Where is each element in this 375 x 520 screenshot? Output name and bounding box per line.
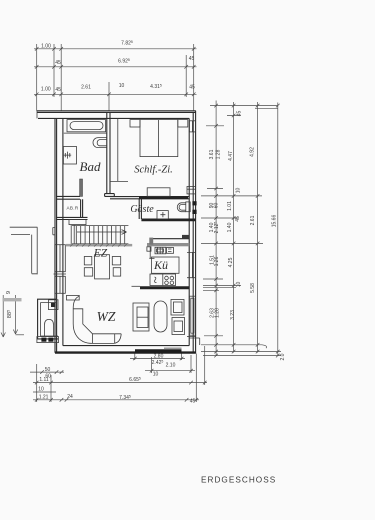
right top connector line xyxy=(210,106,278,109)
svg-text:4.47: 4.47 xyxy=(228,151,234,161)
window right wall schlafzimmer xyxy=(189,121,195,132)
left dim bottom horizontal xyxy=(16,334,25,336)
svg-text:Gäste: Gäste xyxy=(130,204,154,215)
bathtub platform line xyxy=(64,132,107,134)
chain D vertical xyxy=(277,103,279,357)
dim 6.65 ticks xyxy=(35,381,207,385)
chain B vertical xyxy=(233,102,235,353)
SECTION: left dimensions xyxy=(1,291,24,337)
dim 2.10 line xyxy=(145,370,195,372)
svg-text:45: 45 xyxy=(236,111,242,117)
svg-text:1.00: 1.00 xyxy=(41,43,51,49)
kitchen small box below band xyxy=(147,247,151,251)
svg-text:60: 60 xyxy=(213,203,219,209)
svg-text:1.01: 1.01 xyxy=(227,201,233,211)
entry step gray band far left xyxy=(3,298,22,301)
left dim verticals xyxy=(3,295,15,337)
svg-text:Schlf.-Zi.: Schlf.-Zi. xyxy=(134,165,173,176)
svg-text:WZ: WZ xyxy=(97,309,116,324)
washbasin square with cross xyxy=(63,147,76,165)
terrace door threshold thick xyxy=(135,349,182,352)
fireplace bay outer xyxy=(38,299,58,339)
kitchen counter band left cap xyxy=(149,238,153,245)
bathtub inner stadium xyxy=(70,122,103,130)
svg-text:2.10: 2.10 xyxy=(166,363,176,369)
sofa arm box top xyxy=(67,295,80,300)
bathtub outer xyxy=(67,120,106,132)
svg-text:1.26: 1.26 xyxy=(214,256,220,266)
dining table EZ xyxy=(95,255,110,279)
SECTION: walls xyxy=(3,111,200,353)
extension verticals top xyxy=(37,44,194,111)
wall left inner xyxy=(62,118,64,345)
wall right inner xyxy=(188,118,190,338)
wall bottom outer thick xyxy=(55,351,196,353)
svg-text:50: 50 xyxy=(45,367,51,373)
dim row3 line xyxy=(34,93,197,95)
wall top left end cap xyxy=(36,111,38,119)
svg-text:3.23: 3.23 xyxy=(230,310,236,320)
svg-text:45: 45 xyxy=(189,56,195,62)
right rotated labels xyxy=(209,111,286,361)
right tick rows horizontals xyxy=(201,116,281,356)
svg-text:15.66: 15.66 xyxy=(272,215,278,228)
SECTION: rooms xyxy=(63,120,190,344)
svg-text:24: 24 xyxy=(67,394,73,400)
dim 7.34 ticks xyxy=(35,398,198,402)
partition Bad/Schlafzimmer xyxy=(107,112,110,193)
svg-text:10: 10 xyxy=(236,282,242,288)
kitchen lower counter xyxy=(150,274,176,286)
chair EZ top-right xyxy=(112,257,120,265)
SECTION: bottom dimensions xyxy=(30,346,207,405)
svg-text:1.21: 1.21 xyxy=(39,395,49,401)
toilet Gaeste tank xyxy=(186,202,190,212)
svg-text:45: 45 xyxy=(235,216,241,222)
svg-text:4.25: 4.25 xyxy=(228,257,234,267)
window left wall lower xyxy=(55,276,66,293)
svg-text:45: 45 xyxy=(55,60,61,66)
svg-text:3.61: 3.61 xyxy=(209,149,215,159)
stairs outline xyxy=(72,226,128,244)
SECTION: top dimensions xyxy=(34,40,197,111)
wall Bad bottom xyxy=(56,196,80,199)
fireplace bay inner xyxy=(41,303,58,336)
left wall step lines top xyxy=(53,228,55,235)
wall Gaeste bottom dark xyxy=(141,218,195,221)
svg-text:Bad: Bad xyxy=(80,159,101,174)
kitchen table xyxy=(152,257,180,273)
stairs direction arrow xyxy=(77,230,127,235)
dim row2 line xyxy=(34,66,197,68)
svg-text:ERDGESCHOSS: ERDGESCHOSS xyxy=(201,476,276,485)
wall Schlafzimmer bottom xyxy=(110,197,189,199)
kitchen appliance box small xyxy=(167,248,174,254)
kitchen burners xyxy=(165,276,174,284)
oval table WZ xyxy=(154,301,167,332)
svg-text:AB.R: AB.R xyxy=(67,206,79,211)
kitchen counter side panel xyxy=(149,247,154,259)
wall top inner line xyxy=(38,117,189,119)
wall Kitchen top xyxy=(152,238,189,240)
dim row1 ticks xyxy=(35,47,196,51)
wall AB.R right xyxy=(81,199,83,218)
svg-text:10: 10 xyxy=(38,386,44,392)
chair EZ bottom-right xyxy=(113,268,121,276)
svg-text:45: 45 xyxy=(189,85,195,91)
bed Schlafzimmer xyxy=(140,120,178,157)
svg-text:1.11: 1.11 xyxy=(39,377,49,383)
svg-text:EZ: EZ xyxy=(93,248,108,260)
sofa outer edge xyxy=(73,296,121,343)
extension verticals bottom xyxy=(37,346,205,402)
dim 7.34 line xyxy=(33,399,199,401)
wall Kitchen bottom dark xyxy=(140,286,189,289)
svg-text:5.58: 5.58 xyxy=(250,283,256,293)
svg-text:1.28: 1.28 xyxy=(214,308,220,318)
fireplace base plate xyxy=(37,337,59,343)
chain C vertical xyxy=(257,102,259,353)
chair EZ bottom-left xyxy=(84,268,92,276)
wall right outer xyxy=(193,111,195,353)
wall Gaeste left xyxy=(139,199,141,219)
heater box with dot left wall xyxy=(49,300,59,310)
svg-text:10: 10 xyxy=(235,188,241,194)
sofa seat dividers xyxy=(93,334,115,344)
wall top outer double line xyxy=(37,111,196,113)
svg-text:1.28: 1.28 xyxy=(216,149,222,159)
svg-text:45: 45 xyxy=(190,399,196,405)
terrace wall top-left L shape xyxy=(10,227,38,274)
wall Kitchen top dark cap xyxy=(182,235,189,239)
closet line Schlafzimmer left xyxy=(110,118,128,181)
chain A vertical xyxy=(215,101,217,357)
dim row1 line xyxy=(34,48,197,50)
terrace door dim line xyxy=(130,358,185,360)
right ticks diagonal xyxy=(214,104,279,358)
nightstand left xyxy=(130,120,140,127)
chair EZ top-left xyxy=(84,257,92,265)
svg-text:1.00: 1.00 xyxy=(41,86,51,92)
terrace door dim ticks xyxy=(133,357,183,361)
hall cupboard box xyxy=(69,220,86,225)
svg-text:2.0: 2.0 xyxy=(280,353,286,360)
svg-text:2.61: 2.61 xyxy=(250,215,256,225)
sofa inner edge xyxy=(73,309,121,334)
wall Schlafzimmer bottom dark part xyxy=(139,196,188,199)
fireplace arch xyxy=(45,319,54,336)
svg-text:10: 10 xyxy=(119,83,125,89)
svg-text:1.40: 1.40 xyxy=(227,222,233,232)
armchair sofa left WZ xyxy=(133,303,149,331)
armchair WZ top-right xyxy=(171,300,184,316)
nightstand right xyxy=(178,120,188,127)
left dim arrows xyxy=(1,330,18,338)
sink Gaeste xyxy=(157,211,168,219)
dim 50-60 line xyxy=(30,371,64,373)
window jamb blocks right wall gaeste xyxy=(192,201,196,205)
dim row3 ticks xyxy=(35,93,196,97)
terrace door inner sill line xyxy=(164,347,182,349)
svg-text:Kü: Kü xyxy=(153,258,168,272)
armchair WZ bottom-right xyxy=(172,318,185,335)
svg-text:4.92: 4.92 xyxy=(250,147,256,157)
wall AB.R bottom xyxy=(56,217,88,219)
Bad door leaf xyxy=(80,179,83,196)
wall bottom inner xyxy=(63,338,189,346)
stairs treads xyxy=(76,226,124,244)
svg-text:45: 45 xyxy=(55,87,61,93)
dim 6.65 line xyxy=(33,382,207,384)
dim 2.10 ticks xyxy=(150,369,193,373)
window left wall upper xyxy=(54,245,67,274)
svg-text:2.61: 2.61 xyxy=(81,85,91,91)
svg-text:10: 10 xyxy=(153,372,159,378)
fireplace black blocks xyxy=(41,338,46,342)
wall left outer xyxy=(55,118,57,352)
stairs left cap xyxy=(71,225,74,245)
kitchen counter band gray xyxy=(147,243,189,246)
kitchen appliance box striped xyxy=(155,247,166,254)
toilet Gaeste bowl xyxy=(177,203,186,212)
svg-text:9: 9 xyxy=(6,291,12,294)
SECTION: labels xyxy=(67,159,277,485)
terrace step corner lines xyxy=(189,338,200,345)
partition door cap xyxy=(105,194,115,197)
window right wall kitchen xyxy=(187,252,196,277)
wall Kitchen bottom thin extension xyxy=(132,285,141,287)
dim 50-60 ticks xyxy=(40,370,63,374)
sink Bad on partition xyxy=(93,138,107,148)
wardrobe Schlafzimmer bottom xyxy=(147,188,170,197)
SECTION: right dimensions xyxy=(201,101,286,361)
hatched landing strip xyxy=(66,244,132,247)
dim row2 ticks xyxy=(35,65,196,69)
window right wall wohnzimmer xyxy=(187,296,196,336)
dim 10 left short line xyxy=(33,391,56,393)
window sill box right wall xyxy=(187,187,195,194)
